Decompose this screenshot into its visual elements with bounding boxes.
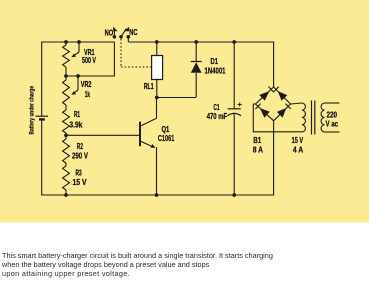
svg-text:Battery under charge: Battery under charge xyxy=(29,86,36,135)
svg-text:R2: R2 xyxy=(77,142,83,151)
wire emitter lead xyxy=(156,147,158,195)
svg-text:4 A: 4 A xyxy=(293,146,303,155)
relay contact NC xyxy=(125,27,130,42)
svg-text:8 A: 8 A xyxy=(253,146,263,155)
svg-text:290 V: 290 V xyxy=(72,152,88,161)
node top-rail junction VR1 wiper xyxy=(77,40,81,44)
wire RL1 to D1 xyxy=(157,97,196,99)
svg-text:15 V: 15 V xyxy=(292,136,304,145)
node VR2 wiper junction xyxy=(76,74,80,78)
wire C1 top lead xyxy=(233,42,235,109)
wire RL1 bottom lead xyxy=(156,80,158,98)
yellow schematic background xyxy=(0,0,369,223)
potentiometer VR2 xyxy=(63,76,78,105)
svg-text:500 V: 500 V xyxy=(82,56,96,65)
svg-text:B1: B1 xyxy=(253,136,261,145)
potentiometer VR1 xyxy=(63,42,79,67)
svg-text:R3: R3 xyxy=(76,169,82,178)
wire top-left rail xyxy=(42,41,115,43)
svg-text:220: 220 xyxy=(327,111,338,120)
wire primary bottom lead xyxy=(325,131,340,133)
wire C1 bottom lead xyxy=(233,114,235,195)
label C1 polarity plus xyxy=(238,103,242,107)
bridge rectifier B1 xyxy=(255,87,290,121)
wire R2 to R3 xyxy=(65,163,67,166)
svg-text:VR2: VR2 xyxy=(81,80,92,89)
wire bridge top lead xyxy=(273,42,275,88)
node RL1 top junction xyxy=(155,40,159,44)
resistor R3 xyxy=(63,166,70,190)
wire bridge right AC lead xyxy=(291,103,303,104)
svg-text:Q1: Q1 xyxy=(162,125,170,134)
node VR1-VR2 junction xyxy=(64,74,68,78)
svg-text:V ac: V ac xyxy=(326,120,339,129)
resistor R2 xyxy=(63,139,70,163)
wire R3 to bottom rail xyxy=(65,190,67,195)
wire bridge left AC lead xyxy=(253,104,302,132)
node chain bottom junction xyxy=(64,193,68,197)
wire left battery branch lower xyxy=(41,119,43,195)
transformer core xyxy=(312,101,315,135)
svg-text:C1061: C1061 xyxy=(158,134,175,143)
wire R1 to base node xyxy=(65,133,67,139)
battery under charge xyxy=(36,116,49,119)
node RL1 bottom junction xyxy=(155,96,159,100)
relay pole lever xyxy=(119,28,126,38)
wire RL1 top lead xyxy=(156,42,158,56)
wire base xyxy=(66,134,140,136)
node C1 top junction xyxy=(232,40,236,44)
wire bottom rail xyxy=(41,194,274,196)
wire top-right rail xyxy=(128,41,274,43)
svg-text:C1: C1 xyxy=(213,103,219,112)
relay coil RL1 xyxy=(152,56,163,80)
node emitter bottom junction xyxy=(155,193,159,197)
svg-text:3.9k: 3.9k xyxy=(69,121,82,130)
mechanical link dashed wire xyxy=(120,39,122,67)
wire bridge bottom lead xyxy=(273,121,275,196)
svg-text:NO: NO xyxy=(105,29,114,38)
svg-text:NC: NC xyxy=(129,28,137,37)
node D1 top junction xyxy=(194,40,198,44)
wire sense line to NO contact xyxy=(66,75,114,77)
relay contact NO xyxy=(113,27,118,39)
node base junction xyxy=(64,133,68,137)
node top-rail junction VR1 xyxy=(64,40,68,44)
diode D1 xyxy=(191,42,202,73)
node C1 bottom junction xyxy=(232,193,236,197)
svg-text:470 mF: 470 mF xyxy=(207,112,228,121)
transformer primary winding xyxy=(321,103,324,132)
wire VR2 to R1 xyxy=(65,105,67,110)
transformer secondary winding xyxy=(302,103,305,132)
svg-text:15 V: 15 V xyxy=(73,178,87,187)
svg-text:1k: 1k xyxy=(85,90,90,99)
wire left battery branch upper xyxy=(41,42,43,117)
resistor R1 xyxy=(63,110,70,133)
svg-text:1N4001: 1N4001 xyxy=(205,67,226,76)
svg-text:R1: R1 xyxy=(74,110,80,119)
wire VR1 to junction xyxy=(65,67,67,80)
capacitor C1 xyxy=(227,109,241,116)
wire chain top stub xyxy=(65,42,67,46)
caption text xyxy=(2,251,364,278)
svg-text:RL1: RL1 xyxy=(144,82,154,91)
transistor Q1 xyxy=(140,98,157,148)
svg-text:D1: D1 xyxy=(211,57,219,66)
wire primary top lead xyxy=(325,102,340,104)
